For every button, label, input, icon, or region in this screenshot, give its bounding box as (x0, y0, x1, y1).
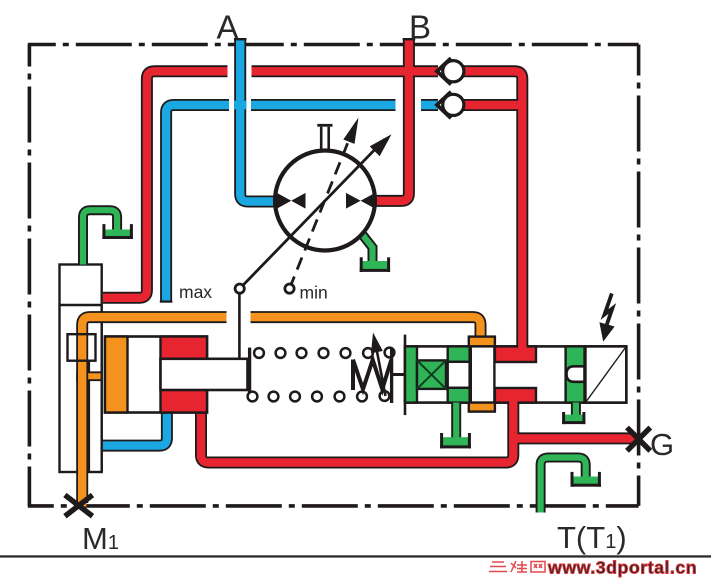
port G X marker (627, 428, 650, 451)
wire blue line from low-pressure gallery to check valve V2 (left segment with dead end) (160, 105, 229, 303)
servo bore channel lines (89, 323, 102, 473)
wire red port B line down to pump (373, 39, 415, 201)
spring adjust arrow (371, 333, 386, 397)
valve green land right with plug notch (566, 346, 585, 402)
wire blue gallery right segment to check valve V2 (421, 99, 438, 111)
spring coils top row (254, 348, 394, 358)
spring seat left (248, 348, 251, 398)
spring coils bottom row (248, 391, 390, 401)
proportional solenoid box (585, 346, 626, 402)
valve spool column with orange caps (469, 337, 495, 412)
svg-text:T(T1): T(T1) (557, 520, 627, 555)
pump flow triangles right (346, 193, 375, 209)
port B cap (403, 38, 416, 40)
node max pivot (235, 284, 244, 293)
enclosure dash-dot border (28, 45, 639, 506)
svg-text:A: A (217, 9, 239, 46)
linkage solid arrow from max pivot through pump (240, 134, 392, 288)
wire blue gallery middle segment (251, 99, 396, 111)
wire red line B-loop top horizontal with left down-leg into servo body (103, 71, 228, 297)
valve green land second (top and bottom) with chamber (448, 346, 470, 402)
wire red from check valve V2 joining right descent (464, 99, 527, 111)
check valve V2 (437, 92, 464, 118)
check valve V1 (437, 58, 464, 84)
pump flow triangles left (277, 193, 306, 209)
valve drain tub left (440, 403, 471, 449)
node min pivot (285, 284, 294, 293)
linkage rod from max pivot to piston rod (238, 293, 241, 360)
electrical signal lightning arrow (599, 294, 614, 342)
svg-text:M1: M1 (82, 521, 119, 556)
wire orange pilot line right run to control valve (251, 317, 481, 338)
wire orange branch stub into servo body (76, 371, 102, 381)
pump drive shaft symbol (317, 124, 332, 152)
port M1 X marker (65, 495, 93, 516)
servo piston assembly (105, 337, 207, 413)
wire red line from servo piston to valve and junction (201, 403, 513, 463)
wire blue line from servo piston underside to servo body (103, 413, 167, 446)
wire blue port A line down to pump (234, 39, 277, 202)
watermark 三维网 glyphs (489, 561, 545, 572)
tank drain loop at port T (541, 458, 601, 513)
spring zigzag symbol (353, 360, 391, 391)
svg-text:www.3dportal.cn: www.3dportal.cn (547, 558, 697, 578)
wire red branch to port G (509, 432, 638, 444)
valve green land left (405, 346, 417, 402)
pilot stub to valve body (390, 373, 406, 376)
wire red top horizontal (right of A crossing) to check valve V1 (252, 65, 439, 77)
drain tub (servo body case drain) (83, 210, 133, 264)
valve pressure section red lands (495, 340, 536, 407)
wire red from check valve V1 to right descent (464, 71, 523, 347)
pump case drain tub (360, 234, 390, 272)
control valve body (405, 335, 626, 416)
wire orange pilot line M1 riser and top run (82, 317, 226, 506)
variable displacement pump U1 (275, 151, 375, 251)
linkage dashed arrow from min pivot through pump (290, 118, 359, 289)
servo piston rod (161, 359, 248, 390)
bottom separator line (0, 555, 711, 557)
svg-text:B: B (409, 9, 431, 46)
svg-text:max: max (179, 282, 212, 302)
svg-text:min: min (300, 282, 328, 302)
servo cylinder body (60, 265, 102, 473)
port A cap (234, 38, 247, 40)
valve damping element (crossed box) (417, 360, 446, 389)
valve drain tub right (562, 403, 585, 425)
svg-text:G: G (650, 427, 674, 462)
spring seat right (spool end) (390, 348, 393, 403)
orifice R1 on M1 line (68, 334, 96, 361)
